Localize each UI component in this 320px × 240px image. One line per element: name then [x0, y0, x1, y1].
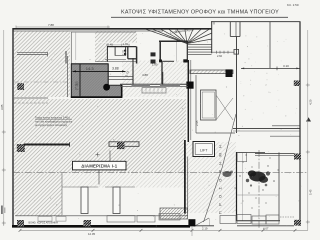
leader below label box [98, 170, 100, 185]
svg-text:Τοιχος κοινος κτισμενος 0.40 μ: Τοιχος κοινος κτισμενος 0.40 μ. [35, 116, 71, 120]
svg-text:3.10: 3.10 [283, 64, 289, 68]
centerline vertical x259 [258, 150, 260, 228]
bottom thin continuation [194, 225, 214, 227]
page edge artifact marks [1, 206, 3, 215]
dark block step edge [108, 84, 122, 86]
stair room top wall [159, 40, 188, 42]
dark block main [71, 64, 108, 98]
stair room right wall [186, 41, 188, 62]
bottom dimension line [20, 229, 308, 231]
svg-text:2.60: 2.60 [217, 54, 223, 58]
hatch region bottom-mid lighter [62, 173, 186, 188]
ink speckles [234, 154, 278, 208]
svg-text:5.45: 5.45 [309, 189, 313, 195]
wall line x67.5 [67, 56, 69, 97]
ink blob small [222, 171, 233, 178]
right outer dimension line [307, 30, 309, 230]
small box in bottom-right room corner [237, 153, 247, 162]
wall fill segment b [160, 84, 180, 87]
top dimension line [16, 26, 110, 28]
column C1 left wall [17, 83, 24, 90]
door swing bottom [196, 218, 210, 226]
bottom-right room inner line [242, 153, 244, 221]
bottom-right room wall left [236, 152, 238, 221]
vertical double wall x188 [187, 60, 189, 142]
stair fan [146, 29, 212, 43]
vertical wall x163 [162, 72, 164, 85]
bottom heavy wall line [12, 225, 190, 228]
cross mark [96, 153, 100, 157]
wall left [12, 28, 14, 227]
svg-text:2.32: 2.32 [123, 50, 126, 55]
bottom steps right [220, 216, 236, 224]
room above block top line [71, 31, 136, 33]
door jamb right [183, 59, 187, 62]
wc wall left [106, 47, 108, 62]
axis dash line y82 [14, 81, 68, 83]
svg-text:2.45: 2.45 [108, 42, 114, 46]
bottom inner wall line [15, 215, 188, 217]
wall jamb marks left of stair room [151, 52, 156, 56]
duct symbol verticals [229, 22, 231, 37]
beam y144 mid band [109, 142, 139, 147]
hatch region top-left room [14, 31, 70, 97]
connector to column [255, 153, 294, 155]
column C7 black [226, 69, 233, 77]
bottom-right room top [237, 151, 266, 153]
tick marks left [2, 130, 6, 134]
dark block border right lower [121, 85, 123, 98]
stair room bottom wall [160, 60, 174, 62]
bottom-right room wall right [278, 152, 280, 220]
black dot in block [103, 84, 110, 91]
dim line right of stair [212, 51, 234, 53]
stair room left wall [159, 41, 161, 62]
wall y136 right [270, 135, 300, 137]
svg-text:ΔΙΑΜΕΡΙΣΜΑ Ι-1: ΔΙΑΜΕΡΙΣΜΑ Ι-1 [81, 164, 118, 169]
dim arrow line inside block [73, 70, 126, 72]
svg-text:ΒΟΗΘ. ΧΩΡΟΣ ΑΠΟΘΗΚΗ: ΒΟΗΘ. ΧΩΡΟΣ ΑΠΟΘΗΚΗ [29, 221, 59, 224]
column C3 hatched [117, 142, 125, 150]
step rects bottom-centre [107, 216, 135, 223]
dark block extension [108, 85, 121, 97]
svg-text:2.95: 2.95 [195, 120, 199, 126]
room divider vertical x236 upper [236, 37, 238, 134]
svg-text:ΚΛ. 1:50: ΚΛ. 1:50 [287, 3, 299, 7]
right-middle room bottom [196, 132, 235, 134]
shaft inner rect [201, 90, 217, 120]
leader above label box [109, 151, 111, 162]
wall right [299, 22, 301, 226]
hatch region mid-left large [14, 99, 186, 173]
bench top-left room [17, 51, 48, 53]
svg-text:4.07: 4.07 [263, 226, 269, 230]
dark block border bottom [71, 96, 123, 98]
title underline [111, 16, 288, 18]
hatch region bottom-left [14, 173, 62, 216]
wall top inner line [13, 30, 163, 32]
svg-text:7.88: 7.88 [48, 23, 54, 27]
dark block border right upper [107, 64, 109, 86]
left outer dimension line [3, 30, 5, 226]
pilaster bottom-left a [81, 187, 88, 214]
centerline horizontal [13, 172, 308, 174]
door jamb left [159, 60, 162, 63]
svg-text:Π Ρ Ο Σ Ο Ψ Η Μ Η: Π Ρ Ο Σ Ο Ψ Η Μ Η [219, 143, 223, 214]
LIFT shaft [193, 142, 215, 157]
wc lower lines [105, 58, 126, 60]
wall stub mid-left [14, 97, 48, 99]
room divider vertical x270 [269, 22, 271, 69]
wall segment right y128 stub [272, 125, 300, 127]
apartment label box [73, 161, 127, 170]
dark block border top [71, 63, 109, 65]
column C2 left wall [17, 144, 25, 152]
wall band hatched mid-right [190, 70, 233, 74]
thin vertical dim in room above block [75, 33, 77, 61]
wc wall step horizontal [128, 58, 137, 60]
corridor wall lower [161, 62, 163, 85]
duct bottom [230, 36, 240, 38]
column C10 [294, 154, 301, 160]
note underline [35, 119, 72, 121]
column C5 hatched [84, 220, 92, 227]
stair right wall [211, 22, 213, 54]
level triangle marker [306, 117, 311, 121]
svg-text:4.20: 4.20 [309, 99, 313, 105]
column C11 [294, 220, 301, 226]
top boundary right thin [211, 21, 301, 23]
dark block hatch [71, 64, 108, 98]
svg-text:2.19: 2.19 [202, 226, 208, 230]
small window rects bottom-left [38, 217, 52, 222]
room above block left line [70, 32, 72, 64]
partial wall line y187 [62, 186, 98, 188]
wc fixture marks [124, 50, 126, 52]
vertical wall x133 [132, 58, 134, 85]
svg-text:12.05: 12.05 [88, 232, 95, 236]
dim arrow line top-right [241, 67, 300, 69]
pilaster bottom-left b [113, 187, 120, 214]
wc dim tick line [106, 44, 130, 46]
svg-text:που δεν κατεδαφιζεται συμφωνα: που δεν κατεδαφιζεται συμφωνα [35, 119, 73, 123]
long diagonal construction line [204, 114, 237, 222]
bottom-right room bottom [237, 220, 281, 222]
hatch region right of block [122, 61, 187, 85]
hatch region above wc rooms [95, 31, 137, 43]
dashed line mid-left [14, 102, 48, 104]
column C6 black [188, 219, 195, 226]
stair treads [188, 45, 212, 55]
wall divider x62 [61, 173, 63, 215]
wall y128 right [233, 127, 300, 129]
hatch region left of wc rooms [95, 43, 108, 62]
wall horizontal y85 [120, 83, 188, 85]
hatch region mid-bottom-right [186, 142, 236, 213]
wc wall horizontal [107, 46, 137, 48]
ink blob large [246, 170, 270, 186]
main vertical wall x185 lower [184, 140, 186, 214]
wc divider 1 [114, 47, 116, 56]
svg-text:4.88: 4.88 [142, 73, 148, 77]
svg-text:1.70: 1.70 [123, 42, 129, 46]
wall lines right of block [109, 76, 134, 78]
svg-text:3.85: 3.85 [0, 104, 4, 110]
svg-text:LIFT: LIFT [200, 149, 208, 153]
wall fill segment a [132, 84, 151, 87]
small box end of dim line [234, 49, 239, 54]
svg-text:3.88: 3.88 [112, 66, 119, 70]
wc shelf [115, 54, 126, 56]
svg-text:(7.0μ): (7.0μ) [75, 82, 79, 90]
wc right wall [136, 47, 138, 64]
hatch strip below y86 wall [122, 87, 186, 97]
right-middle room left wall [195, 75, 197, 133]
tick on top wall [175, 29, 177, 33]
svg-text:14.3: 14.3 [86, 66, 95, 71]
svg-text:με σχημα ψηφου αποφασης: με σχημα ψηφου αποφασης [35, 124, 68, 127]
bottom-right room interior line [237, 194, 279, 196]
grease trap box [142, 88, 166, 93]
column C8 black [186, 82, 193, 89]
column C9 [294, 81, 300, 87]
bottom dim slashes [19, 229, 297, 232]
dark block border left [70, 64, 72, 98]
svg-text:ΚΑΤΟΨΙΣ ΥΦΙΣΤΑΜΕΝΟΥ ΟΡΟΦΟΥ και: ΚΑΤΟΨΙΣ ΥΦΙΣΤΑΜΕΝΟΥ ΟΡΟΦΟΥ και ΤΜΗΜΑ ΥΠΟ… [121, 10, 279, 16]
beam y144 left [24, 144, 70, 146]
wc wall step vertical [127, 47, 129, 59]
vertical small dim at x192 [191, 227, 193, 236]
wc divider 2 [125, 47, 127, 56]
wall top [13, 28, 212, 30]
vertical wall line inside block [79, 64, 81, 97]
column C4 hatched [17, 220, 24, 227]
faint divider in stair room [175, 42, 177, 62]
tick below top boundary [213, 22, 215, 25]
wall stub left of block [65, 51, 67, 64]
door swing diagonals [216, 98, 233, 120]
svg-text:1.80: 1.80 [152, 63, 158, 67]
scan speckle noise [241, 35, 299, 128]
